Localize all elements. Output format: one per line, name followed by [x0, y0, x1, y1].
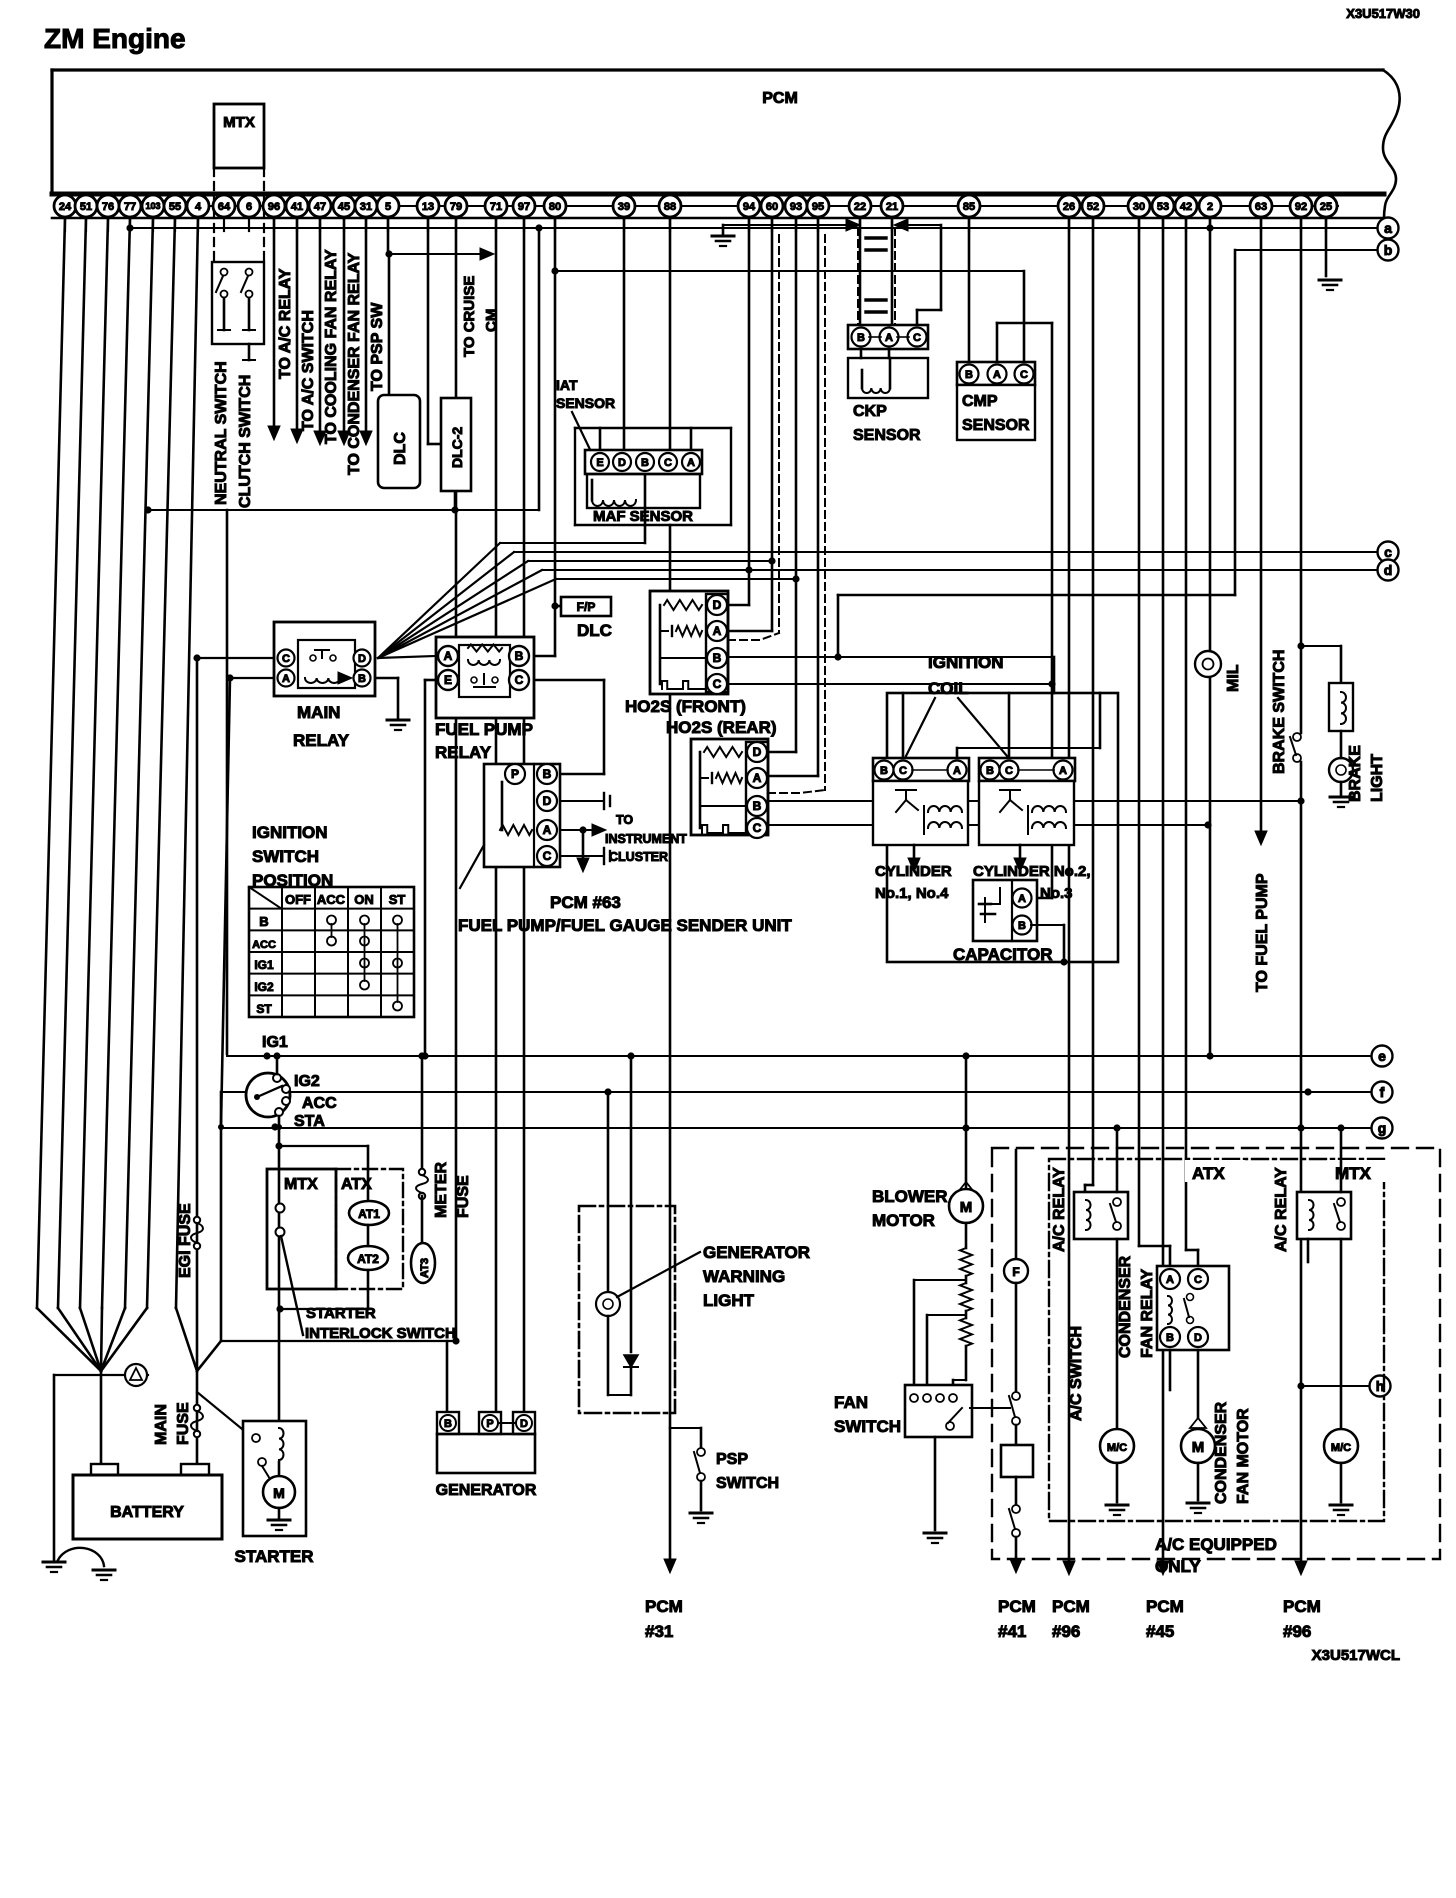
svg-text:TO FUEL PUMP: TO FUEL PUMP: [1254, 873, 1271, 992]
svg-text:CYLINDER No.2,: CYLINDER No.2,: [973, 863, 1091, 880]
svg-text:M/C: M/C: [1331, 1442, 1351, 1454]
svg-text:MTX: MTX: [223, 114, 255, 131]
svg-text:53: 53: [1157, 201, 1169, 213]
svg-text:HO2S (REAR): HO2S (REAR): [666, 718, 777, 737]
svg-text:CONDENSER: CONDENSER: [1213, 1401, 1230, 1504]
svg-text:SENSOR: SENSOR: [853, 427, 921, 444]
svg-text:22: 22: [854, 201, 866, 213]
svg-text:D: D: [358, 653, 366, 665]
svg-text:24: 24: [59, 201, 72, 213]
svg-text:#31: #31: [645, 1622, 673, 1641]
svg-text:RELAY: RELAY: [435, 743, 492, 762]
svg-text:B: B: [641, 457, 649, 469]
svg-text:C: C: [664, 457, 672, 469]
svg-text:TO PSP SW: TO PSP SW: [369, 302, 386, 391]
svg-text:A/C RELAY: A/C RELAY: [1051, 1167, 1068, 1252]
svg-text:D: D: [618, 457, 626, 469]
svg-text:A: A: [543, 823, 552, 837]
svg-text:AT3: AT3: [419, 1258, 431, 1278]
svg-text:B: B: [1166, 1332, 1174, 1344]
svg-text:94: 94: [743, 201, 756, 213]
svg-text:D: D: [753, 745, 762, 759]
svg-text:ATX: ATX: [341, 1176, 372, 1193]
svg-text:ST: ST: [256, 1002, 272, 1016]
svg-text:SENSOR: SENSOR: [556, 395, 615, 411]
svg-text:41: 41: [291, 201, 303, 213]
svg-text:C: C: [282, 653, 290, 665]
svg-text:INTERLOCK SWITCH: INTERLOCK SWITCH: [305, 1325, 456, 1342]
svg-text:B: B: [880, 765, 888, 777]
svg-text:MIL: MIL: [1225, 664, 1242, 692]
svg-text:A: A: [444, 649, 453, 663]
svg-text:FAN MOTOR: FAN MOTOR: [1235, 1408, 1252, 1504]
svg-text:51: 51: [80, 201, 92, 213]
svg-text:26: 26: [1063, 201, 1075, 213]
svg-text:A: A: [1018, 893, 1026, 905]
svg-text:FAN RELAY: FAN RELAY: [1139, 1268, 1156, 1358]
svg-text:ONLY: ONLY: [1155, 1557, 1201, 1576]
svg-text:B: B: [753, 799, 762, 813]
svg-text:52: 52: [1087, 201, 1099, 213]
svg-text:d: d: [1384, 562, 1393, 578]
svg-text:WARNING: WARNING: [703, 1267, 785, 1286]
svg-text:TO A/C RELAY: TO A/C RELAY: [277, 268, 294, 379]
svg-text:ACC: ACC: [317, 892, 346, 907]
svg-text:IG1: IG1: [262, 1034, 288, 1051]
svg-text:96: 96: [268, 201, 280, 213]
svg-text:M: M: [960, 1199, 973, 1216]
svg-text:13: 13: [422, 201, 434, 213]
svg-text:PCM: PCM: [1052, 1597, 1090, 1616]
svg-text:30: 30: [1133, 201, 1145, 213]
svg-text:PCM: PCM: [762, 90, 798, 107]
svg-text:45: 45: [338, 201, 350, 213]
svg-text:#41: #41: [998, 1622, 1026, 1641]
svg-text:A: A: [885, 332, 893, 344]
svg-text:ZM Engine: ZM Engine: [44, 23, 186, 54]
svg-text:METER: METER: [433, 1162, 450, 1218]
svg-text:g: g: [1378, 1120, 1387, 1136]
svg-text:A: A: [687, 457, 695, 469]
svg-text:79: 79: [450, 201, 462, 213]
svg-text:60: 60: [766, 201, 778, 213]
svg-text:C: C: [713, 677, 722, 691]
svg-text:25: 25: [1320, 201, 1332, 213]
svg-text:TO CRUISE: TO CRUISE: [461, 276, 478, 357]
svg-text:63: 63: [1255, 201, 1267, 213]
svg-text:103: 103: [145, 201, 160, 211]
svg-text:BRAKE SWITCH: BRAKE SWITCH: [1271, 650, 1288, 774]
svg-text:X3U517WCL: X3U517WCL: [1312, 1647, 1400, 1664]
svg-text:P: P: [486, 1418, 493, 1430]
svg-text:B: B: [713, 651, 722, 665]
svg-text:BRAKE: BRAKE: [1347, 745, 1364, 802]
svg-text:A: A: [282, 673, 290, 685]
svg-text:MTX: MTX: [284, 1176, 318, 1193]
svg-text:47: 47: [314, 201, 326, 213]
svg-text:e: e: [1378, 1048, 1386, 1064]
svg-text:DLC: DLC: [392, 432, 409, 465]
svg-text:IAT: IAT: [556, 377, 578, 393]
svg-text:64: 64: [218, 201, 231, 213]
svg-text:CLUTCH SWITCH: CLUTCH SWITCH: [237, 375, 254, 508]
svg-text:#96: #96: [1283, 1622, 1311, 1641]
svg-text:B: B: [1018, 920, 1026, 932]
svg-text:D: D: [520, 1418, 528, 1430]
svg-text:MOTOR: MOTOR: [872, 1211, 935, 1230]
svg-text:PCM: PCM: [1146, 1597, 1184, 1616]
svg-text:80: 80: [549, 201, 561, 213]
svg-text:LIGHT: LIGHT: [1369, 754, 1386, 802]
svg-text:C: C: [543, 849, 552, 863]
svg-text:A: A: [753, 771, 762, 785]
svg-text:FUEL PUMP/FUEL GAUGE SENDER UN: FUEL PUMP/FUEL GAUGE SENDER UNIT: [458, 916, 792, 935]
svg-text:PCM #63: PCM #63: [550, 893, 621, 912]
svg-text:B: B: [358, 673, 366, 685]
svg-text:95: 95: [812, 201, 824, 213]
svg-text:C: C: [753, 821, 762, 835]
svg-text:B: B: [515, 649, 524, 663]
svg-text:ATX: ATX: [1192, 1164, 1225, 1183]
svg-text:#96: #96: [1052, 1622, 1080, 1641]
svg-text:TO: TO: [616, 813, 633, 827]
svg-text:D: D: [713, 598, 722, 612]
svg-text:LIGHT: LIGHT: [703, 1291, 755, 1310]
svg-text:A/C RELAY: A/C RELAY: [1273, 1167, 1290, 1252]
svg-text:CLUSTER: CLUSTER: [609, 850, 668, 864]
svg-text:f: f: [1380, 1084, 1385, 1100]
svg-text:PCM: PCM: [645, 1597, 683, 1616]
svg-text:F: F: [1012, 1265, 1019, 1279]
svg-text:STARTER: STARTER: [234, 1547, 313, 1566]
svg-text:ACC: ACC: [302, 1095, 337, 1112]
svg-text:FUSE: FUSE: [175, 1402, 192, 1445]
svg-text:C: C: [913, 332, 921, 344]
svg-text:No.1, No.4: No.1, No.4: [875, 885, 949, 902]
svg-text:PCM: PCM: [998, 1597, 1036, 1616]
svg-text:B: B: [965, 369, 973, 381]
svg-text:4: 4: [195, 201, 202, 213]
svg-text:IG2: IG2: [254, 980, 274, 994]
svg-text:DLC: DLC: [577, 621, 612, 640]
svg-text:A/C SWITCH: A/C SWITCH: [1068, 1326, 1085, 1421]
svg-text:c: c: [1384, 544, 1392, 560]
svg-text:D: D: [543, 794, 552, 808]
svg-text:EGI FUSE: EGI FUSE: [177, 1203, 194, 1278]
svg-text:M: M: [1192, 1439, 1205, 1456]
svg-text:A: A: [713, 624, 722, 638]
svg-text:88: 88: [664, 201, 676, 213]
svg-text:5: 5: [385, 201, 391, 213]
svg-text:GENERATOR: GENERATOR: [703, 1243, 810, 1262]
svg-text:55: 55: [169, 201, 181, 213]
svg-text:SENSOR: SENSOR: [962, 417, 1030, 434]
svg-text:CKP: CKP: [853, 403, 887, 420]
svg-text:B: B: [986, 765, 994, 777]
svg-text:CMP: CMP: [962, 393, 998, 410]
svg-text:B: B: [543, 767, 552, 781]
svg-text:CM: CM: [483, 309, 500, 332]
svg-text:FAN: FAN: [834, 1393, 868, 1412]
svg-text:ACC: ACC: [252, 939, 276, 951]
svg-text:MAIN: MAIN: [153, 1404, 170, 1445]
svg-text:E: E: [444, 673, 452, 687]
svg-text:ST: ST: [389, 892, 406, 907]
svg-text:TO A/C SWITCH: TO A/C SWITCH: [300, 310, 317, 431]
svg-text:IGNITION: IGNITION: [928, 653, 1004, 672]
svg-text:A: A: [953, 765, 961, 777]
svg-text:A: A: [993, 369, 1001, 381]
svg-text:C: C: [1020, 369, 1028, 381]
svg-text:97: 97: [518, 201, 530, 213]
svg-text:93: 93: [790, 201, 802, 213]
svg-text:ON: ON: [354, 892, 374, 907]
svg-text:STARTER: STARTER: [306, 1305, 376, 1322]
svg-text:A: A: [1059, 765, 1067, 777]
svg-text:SWITCH: SWITCH: [716, 1475, 779, 1492]
svg-text:MAIN: MAIN: [297, 703, 340, 722]
svg-text:SWITCH: SWITCH: [252, 847, 319, 866]
svg-text:FUSE: FUSE: [455, 1175, 472, 1218]
svg-text:PSP: PSP: [716, 1451, 748, 1468]
svg-text:6: 6: [246, 201, 252, 213]
svg-text:MAF SENSOR: MAF SENSOR: [593, 508, 693, 525]
svg-text:IG1: IG1: [254, 958, 274, 972]
svg-text:42: 42: [1180, 201, 1192, 213]
svg-text:39: 39: [618, 201, 630, 213]
svg-text:21: 21: [886, 201, 898, 213]
svg-text:B: B: [857, 332, 865, 344]
svg-text:P: P: [511, 767, 519, 781]
svg-text:76: 76: [102, 201, 114, 213]
svg-text:AT1: AT1: [358, 1207, 380, 1221]
svg-text:B: B: [444, 1418, 452, 1430]
svg-text:M/C: M/C: [1107, 1442, 1127, 1454]
svg-text:TO CONDENSER FAN RELAY: TO CONDENSER FAN RELAY: [346, 252, 363, 475]
svg-text:B: B: [259, 914, 268, 929]
svg-text:77: 77: [124, 201, 136, 213]
svg-text:E: E: [596, 457, 603, 469]
svg-text:C: C: [1194, 1274, 1202, 1286]
svg-text:RELAY: RELAY: [293, 731, 350, 750]
svg-text:HO2S (FRONT): HO2S (FRONT): [625, 697, 746, 716]
svg-text:NEUTRAL SWITCH: NEUTRAL SWITCH: [213, 361, 230, 505]
svg-text:85: 85: [963, 201, 975, 213]
svg-text:FUEL PUMP: FUEL PUMP: [435, 720, 533, 739]
svg-text:X3U517W30: X3U517W30: [1346, 6, 1420, 21]
svg-text:BLOWER: BLOWER: [872, 1187, 948, 1206]
svg-text:#45: #45: [1146, 1622, 1174, 1641]
svg-text:COIL: COIL: [928, 679, 969, 698]
svg-text:BATTERY: BATTERY: [110, 1504, 184, 1521]
svg-text:SWITCH: SWITCH: [834, 1417, 901, 1436]
svg-text:PCM: PCM: [1283, 1597, 1321, 1616]
svg-text:CONDENSER: CONDENSER: [1117, 1255, 1134, 1358]
svg-text:C: C: [515, 673, 524, 687]
svg-text:92: 92: [1295, 201, 1307, 213]
svg-text:CYLINDER: CYLINDER: [875, 863, 952, 880]
svg-text:C: C: [1005, 765, 1013, 777]
svg-text:DLC-2: DLC-2: [449, 427, 465, 468]
svg-text:OFF: OFF: [285, 892, 311, 907]
svg-text:a: a: [1384, 220, 1392, 236]
svg-text:71: 71: [490, 201, 502, 213]
svg-text:IGNITION: IGNITION: [252, 823, 328, 842]
svg-text:F/P: F/P: [577, 600, 596, 614]
svg-text:b: b: [1384, 242, 1393, 258]
svg-text:AT2: AT2: [357, 1252, 379, 1266]
svg-text:M: M: [273, 1485, 285, 1501]
svg-text:STA: STA: [294, 1113, 325, 1130]
svg-text:D: D: [1194, 1332, 1202, 1344]
svg-text:IG2: IG2: [294, 1073, 320, 1090]
svg-text:No.3: No.3: [1040, 885, 1073, 902]
svg-text:CAPACITOR: CAPACITOR: [953, 945, 1053, 964]
svg-text:31: 31: [360, 201, 372, 213]
svg-text:2: 2: [1207, 201, 1213, 213]
svg-text:TO COOLING FAN RELAY: TO COOLING FAN RELAY: [323, 249, 340, 444]
svg-text:C: C: [899, 765, 907, 777]
svg-text:INSTRUMENT: INSTRUMENT: [605, 832, 687, 846]
svg-text:A/C EQUIPPED: A/C EQUIPPED: [1155, 1535, 1277, 1554]
svg-text:A: A: [1166, 1274, 1174, 1286]
svg-text:GENERATOR: GENERATOR: [436, 1482, 537, 1499]
